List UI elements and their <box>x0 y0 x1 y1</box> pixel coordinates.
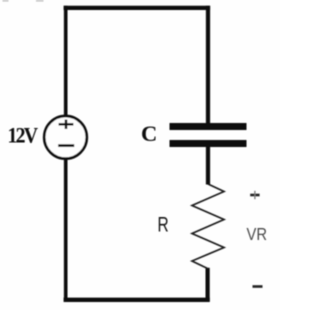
cropped text remnant top-middle <box>36 0 44 2</box>
wire capacitor C to resistor R <box>206 147 210 185</box>
svg-text:12V: 12V <box>8 122 39 147</box>
wire left lower (source - lead) <box>64 158 68 301</box>
svg-text:R: R <box>158 212 169 236</box>
wire top (node between source + and capacitor) <box>64 6 211 10</box>
voltage source minus terminal mark <box>58 144 74 147</box>
resistor R zigzag body <box>192 184 224 269</box>
capacitor C top plate <box>170 123 247 130</box>
capacitor C bottom plate <box>170 140 247 147</box>
wire bottom (return node) <box>64 298 210 302</box>
voltage source V1 circle <box>44 116 87 159</box>
polarity minus mark (VR -) <box>253 285 263 288</box>
voltage source plus terminal mark <box>59 120 74 129</box>
wire right upper (top node to capacitor C) <box>206 6 210 124</box>
svg-text:VR: VR <box>247 225 268 245</box>
wire left upper (source + lead) <box>64 6 68 117</box>
svg-text:C: C <box>141 121 157 146</box>
wire resistor R to bottom node <box>206 268 210 302</box>
polarity plus mark (VR +) <box>250 191 259 199</box>
cropped text remnant top-left <box>3 0 9 2</box>
